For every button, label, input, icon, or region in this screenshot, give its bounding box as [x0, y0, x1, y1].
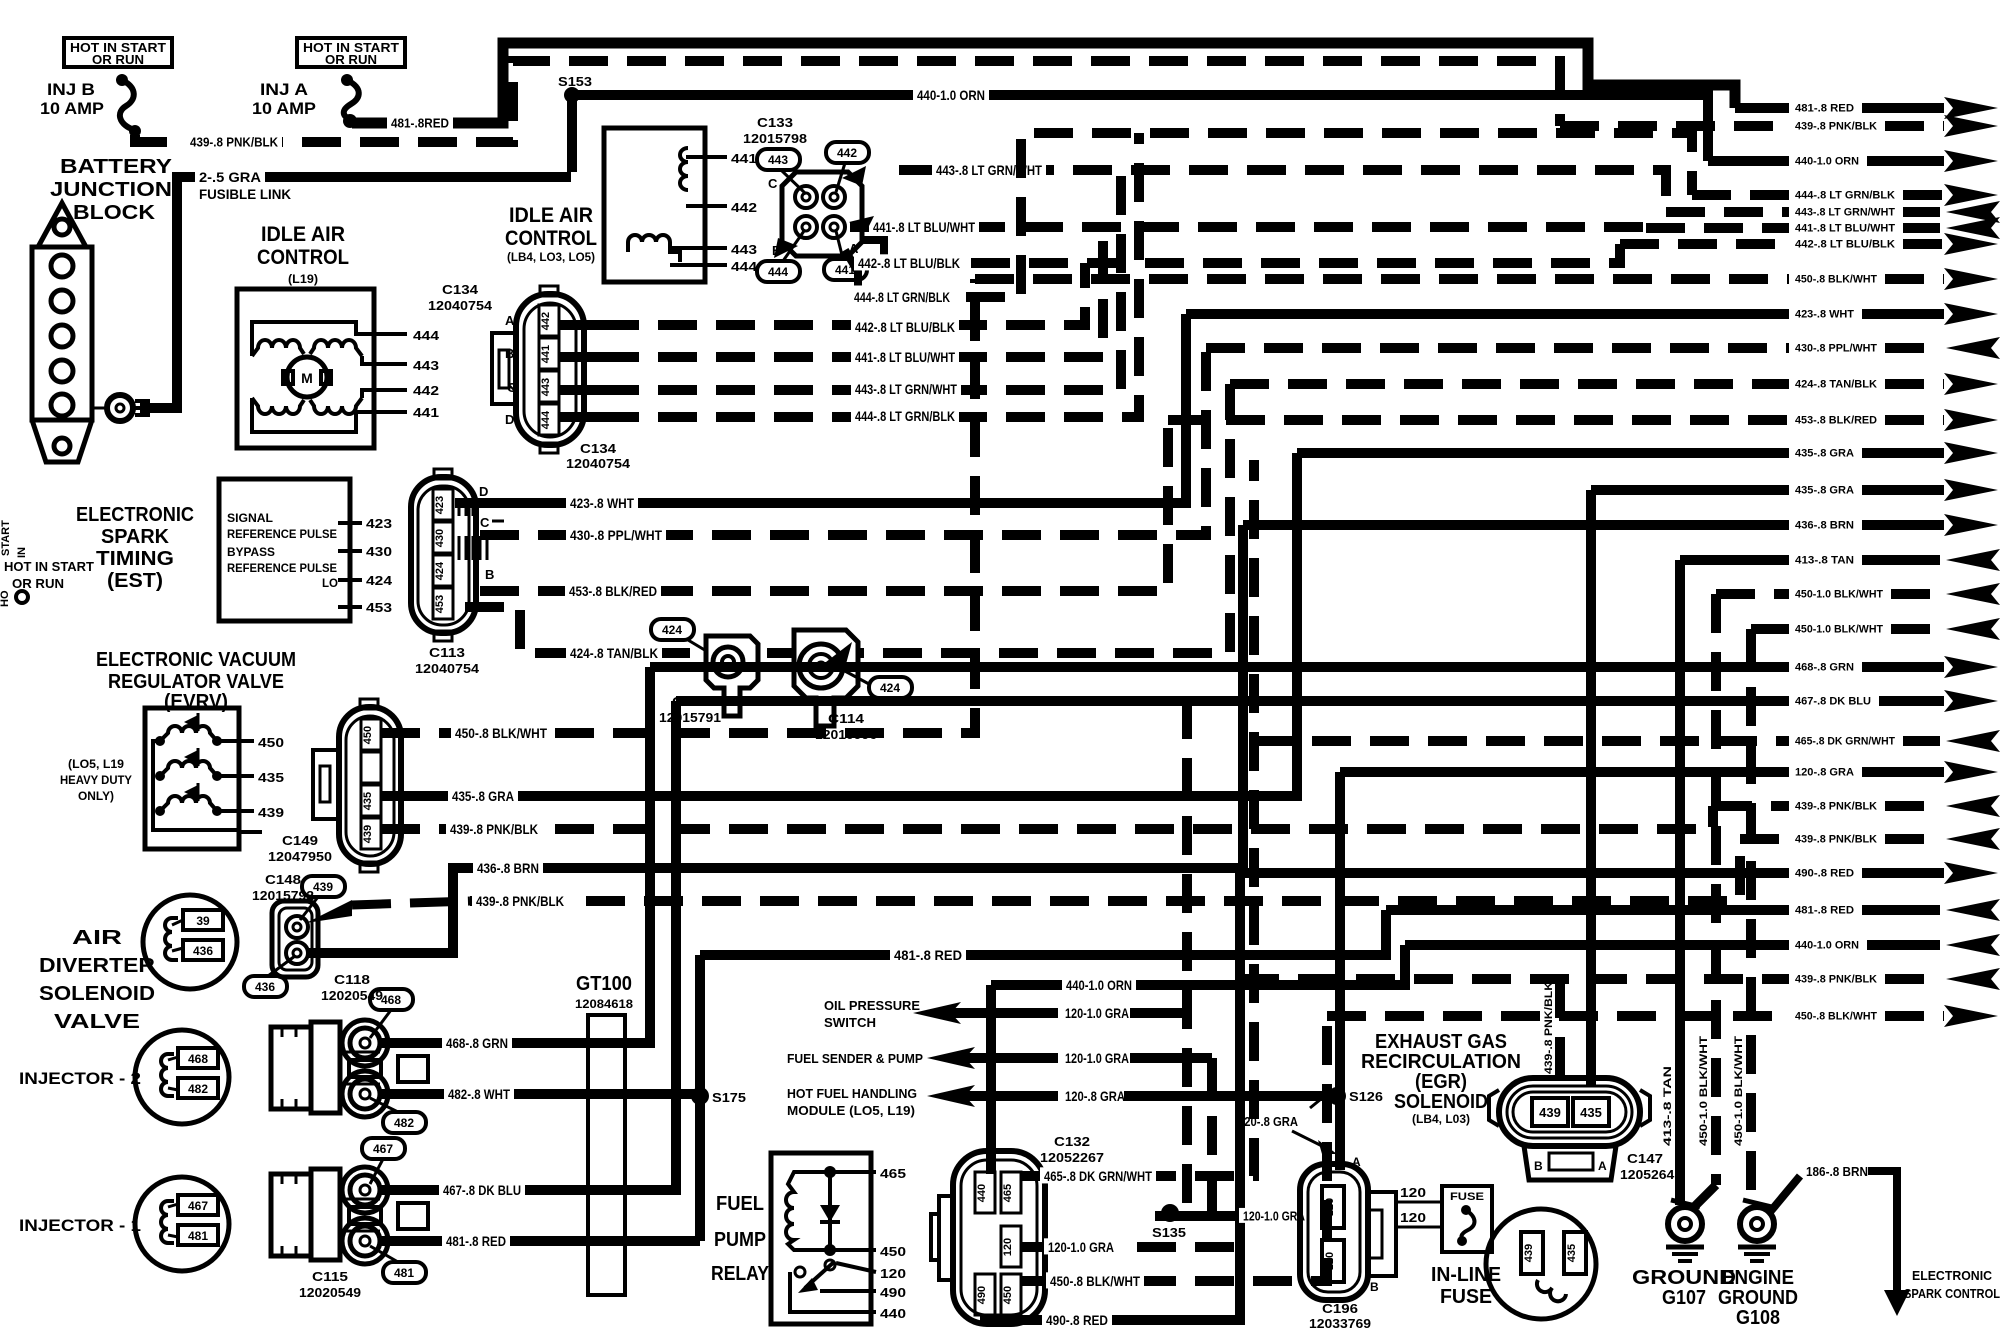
svg-text:LO: LO [322, 576, 338, 590]
svg-text:10 AMP: 10 AMP [252, 99, 316, 118]
svg-text:S175: S175 [712, 1090, 746, 1105]
svg-text:430: 430 [434, 529, 446, 547]
wire 490-.8 RED (right edge, y=873) [1240, 868, 1789, 878]
svg-text:FUEL: FUEL [716, 1193, 764, 1215]
svg-text:IDLE AIR: IDLE AIR [261, 223, 345, 246]
connector C113 shield hatch [458, 500, 461, 516]
EST box [219, 479, 350, 621]
IAC LB4 coil top [680, 148, 688, 190]
connector C133 body [782, 172, 862, 256]
svg-text:467: 467 [188, 1199, 208, 1213]
svg-text:HEAVY DUTY: HEAVY DUTY [60, 773, 132, 787]
wire 435-.8 GRA (right edge, y=490) [1591, 485, 1789, 495]
connector C113 body [411, 477, 476, 633]
svg-text:467-.8 DK BLU: 467-.8 DK BLU [1795, 696, 1871, 708]
wire 450-.8 BLK/WHT (right edge, y=1016) [1327, 1011, 1789, 1021]
svg-text:SPARK CONTROL: SPARK CONTROL [1904, 1286, 2000, 1301]
in-line fuse box [1442, 1186, 1492, 1252]
svg-text:442: 442 [731, 200, 757, 215]
connector C147 body [1499, 1078, 1640, 1146]
svg-text:439-.8 PNK/BLK: 439-.8 PNK/BLK [450, 821, 538, 837]
svg-text:12033769: 12033769 [1309, 1316, 1371, 1328]
wire 120-.8 GRA riser to C196 [1335, 772, 1345, 1170]
svg-text:INJECTOR - 1: INJECTOR - 1 [19, 1216, 141, 1235]
svg-text:441-.8 LT BLU/WHT: 441-.8 LT BLU/WHT [855, 349, 955, 365]
svg-text:443: 443 [413, 358, 439, 373]
splice S135 and 120-1.0 GRA to C196 [1155, 1211, 1300, 1221]
svg-text:REFERENCE PULSE: REFERENCE PULSE [227, 527, 337, 541]
svg-text:440-1.0 ORN: 440-1.0 ORN [917, 87, 985, 103]
svg-text:439-.8 PNK/BLK: 439-.8 PNK/BLK [1795, 834, 1877, 846]
svg-text:442: 442 [837, 146, 857, 160]
wire 465-.8 DK GRN/WHT from C132 [1021, 460, 1254, 1176]
EVRV box [145, 708, 239, 849]
svg-text:442: 442 [413, 383, 439, 398]
wire 430-.8 PPL/WHT [480, 348, 1206, 535]
svg-text:490: 490 [976, 1286, 988, 1304]
wire 482-.8 WHT [380, 1089, 697, 1099]
svg-text:EXHAUST GAS: EXHAUST GAS [1375, 1031, 1507, 1053]
svg-text:186-.8 BRN: 186-.8 BRN [1806, 1164, 1868, 1179]
svg-text:468-.8 GRN: 468-.8 GRN [446, 1035, 508, 1051]
svg-text:IN-LINE: IN-LINE [1431, 1264, 1501, 1286]
label 481-.8RED [387, 115, 453, 130]
wire 436-.8 BRN from C118 [307, 525, 1243, 953]
svg-text:465: 465 [880, 1166, 906, 1181]
svg-text:12040754: 12040754 [415, 661, 480, 676]
svg-text:482: 482 [188, 1082, 208, 1096]
svg-text:430-.8 PPL/WHT: 430-.8 PPL/WHT [1795, 343, 1877, 355]
svg-text:443: 443 [768, 153, 788, 167]
wire 439-.8 PNK/BLK from C149 [381, 806, 1713, 829]
wire 436-.8 BRN (right edge, y=525) [1243, 520, 1789, 530]
svg-text:IDLE AIR: IDLE AIR [509, 204, 593, 227]
battery junction block body [38, 203, 86, 247]
connector C114 #1 tag 424 [651, 619, 694, 640]
svg-text:443-.8 LT GRN/WHT: 443-.8 LT GRN/WHT [936, 162, 1042, 178]
label 439-.8 PNK/BLK [186, 134, 282, 149]
svg-text:C149: C149 [282, 833, 318, 848]
svg-text:GT100: GT100 [576, 973, 632, 995]
svg-text:120-1.0 GRA: 120-1.0 GRA [1065, 1005, 1129, 1021]
connector C148 wedge [306, 900, 352, 923]
connector C132 body [953, 1151, 1045, 1324]
svg-text:120-1.0 GRA: 120-1.0 GRA [1243, 1209, 1305, 1224]
svg-text:CONTROL: CONTROL [257, 246, 349, 269]
svg-text:481: 481 [188, 1229, 208, 1243]
wire 423-.8 WHT (right edge, y=314) [1186, 309, 1789, 319]
wire 439-.8 PNK/BLK (right edge, y=806) [1713, 801, 1789, 811]
svg-text:444-.8 LT GRN/BLK: 444-.8 LT GRN/BLK [855, 408, 955, 424]
wire 490-.8 RED from C132 [985, 873, 1240, 1320]
wire 481-.8 RED (right edge, y=910) [1386, 905, 1789, 915]
svg-text:120: 120 [1400, 1185, 1426, 1200]
wire 444-.8 LT GRN/BLK lower row [600, 133, 1139, 417]
svg-text:BYPASS: BYPASS [227, 545, 275, 559]
svg-text:SIGNAL: SIGNAL [227, 511, 273, 525]
connector C147 pins 439 435 [1532, 1098, 1568, 1126]
IAC LB4 pin lines 441 442 443 444 [686, 155, 727, 159]
air diverter pin boxes 39 436 [183, 910, 223, 930]
svg-text:AIR: AIR [72, 927, 123, 949]
connector C114 #2 tag 424 [869, 677, 912, 698]
svg-text:439: 439 [258, 805, 284, 820]
svg-text:D: D [505, 412, 514, 427]
svg-text:10 AMP: 10 AMP [40, 99, 104, 118]
svg-text:HOT FUEL HANDLING: HOT FUEL HANDLING [787, 1086, 917, 1101]
wire 440-1.0 ORN (right edge, y=161) [1708, 156, 1789, 166]
svg-text:443: 443 [540, 378, 552, 396]
injector-2 connector C119 body [271, 1027, 311, 1109]
IAC L19 motor M [287, 357, 327, 397]
svg-text:39: 39 [196, 914, 210, 928]
svg-text:465: 465 [1002, 1184, 1014, 1202]
wire 439-.8 PNK/BLK to EGR (riser) [1555, 979, 1565, 1085]
wire 186-.8 BRN [1770, 1176, 1800, 1212]
connector C114 #1 body [706, 636, 758, 716]
wire 441-.8 LT BLU/WHT (right edge, y=228) [1646, 223, 1789, 233]
svg-text:481-.8 RED: 481-.8 RED [894, 947, 962, 963]
svg-text:OR RUN: OR RUN [12, 576, 64, 591]
svg-text:430: 430 [366, 544, 392, 559]
svg-text:120: 120 [880, 1266, 906, 1281]
svg-text:A: A [1598, 1159, 1607, 1173]
svg-text:B: B [772, 243, 781, 258]
svg-text:B: B [485, 567, 494, 582]
fuse box label HOT IN START OR RUN (INJ A) [297, 38, 405, 67]
svg-text:C134: C134 [580, 441, 617, 456]
svg-text:C: C [480, 515, 490, 530]
svg-text:450-1.0 BLK/WHT: 450-1.0 BLK/WHT [1698, 1036, 1710, 1146]
connector C133 tag leaders [781, 170, 806, 194]
svg-text:468-.8 GRN: 468-.8 GRN [1795, 662, 1854, 674]
svg-text:PUMP: PUMP [714, 1229, 766, 1251]
svg-text:423-.8 WHT: 423-.8 WHT [570, 495, 634, 511]
connector C114 #2 body [794, 630, 858, 726]
svg-text:12020549: 12020549 [299, 1285, 361, 1300]
svg-text:436-.8 BRN: 436-.8 BRN [477, 860, 539, 876]
wire 440-1.0 ORN (right edge, y=945) [1405, 940, 1789, 950]
svg-text:435: 435 [1580, 1105, 1602, 1120]
wire 481-.8 RED injector-1 [380, 1236, 700, 1246]
label 440-1.0 ORN (top) [913, 86, 989, 102]
wire 450-.8 BLK/WHT from C149 [381, 279, 975, 733]
wire 423-.8 WHT [455, 314, 1186, 503]
wire 430-.8 PPL/WHT (right edge, y=348) [1206, 343, 1789, 353]
connector C133 wedge marks [842, 166, 866, 186]
svg-text:(LB4, LO3, LO5): (LB4, LO3, LO5) [507, 250, 595, 264]
connector C149 pins 450 - 435 439 [361, 719, 381, 750]
injector-1 tag 481 [383, 1262, 426, 1283]
wire 450-1.0 BLK/WHT riser #1 [1711, 594, 1721, 1185]
EGR solenoid circle connector [1486, 1209, 1596, 1319]
wire 442-.8 LT BLU/BLK lower row [600, 263, 1085, 325]
svg-text:481: 481 [394, 1266, 414, 1280]
wire 435-.8 GRA from C149 [381, 453, 1297, 796]
svg-text:440-1.0 ORN: 440-1.0 ORN [1066, 977, 1132, 993]
svg-text:468: 468 [381, 993, 401, 1007]
svg-text:467: 467 [373, 1142, 393, 1156]
wire 443-.8 LT GRN/WHT (right edge, y=212) [1666, 207, 1789, 217]
svg-text:C115: C115 [312, 1269, 348, 1284]
svg-text:453-.8 BLK/RED: 453-.8 BLK/RED [1795, 415, 1877, 427]
wire 439-.8 PNK/BLK (right edge, y=979) [1240, 974, 1789, 984]
svg-text:12084618: 12084618 [575, 997, 633, 1011]
connector C149 left tab [313, 750, 339, 819]
wire 444-.8 LT GRN/BLK (right edge, y=195) [1692, 190, 1789, 200]
wire 441-.8 LT BLU/WHT lower row [600, 227, 1103, 357]
svg-text:12052641: 12052641 [1620, 1167, 1682, 1182]
svg-text:C114: C114 [828, 711, 865, 726]
wire 424-.8 TAN/BLK [465, 384, 1230, 653]
svg-text:444-.8 LT GRN/BLK: 444-.8 LT GRN/BLK [854, 289, 950, 305]
svg-text:436: 436 [193, 944, 213, 958]
connector C118 tag 436 [244, 976, 287, 997]
svg-text:424: 424 [662, 623, 682, 637]
ground G107 symbol [1666, 1245, 1704, 1250]
svg-text:450-1.0 BLK/WHT: 450-1.0 BLK/WHT [1795, 624, 1883, 636]
EVRV pin lines 450 435 439 [217, 739, 254, 743]
svg-text:C133: C133 [757, 115, 793, 130]
svg-text:INJ A: INJ A [260, 80, 308, 99]
svg-text:FUEL SENDER & PUMP: FUEL SENDER & PUMP [787, 1051, 923, 1066]
connector C147 base [1524, 1146, 1616, 1180]
wire 440 ORN from S153 [567, 95, 577, 172]
svg-text:2-.5 GRA: 2-.5 GRA [199, 169, 261, 185]
svg-text:SWITCH: SWITCH [824, 1015, 876, 1030]
svg-text:424: 424 [880, 681, 900, 695]
svg-text:SOLENOID: SOLENOID [39, 983, 155, 1005]
wire 440-1.0 ORN riser from C132 [986, 985, 996, 1174]
svg-text:REGULATOR VALVE: REGULATOR VALVE [108, 671, 284, 693]
svg-text:120: 120 [1002, 1238, 1014, 1256]
splice S175 [691, 1087, 709, 1105]
svg-text:B: B [1534, 1159, 1543, 1173]
battery ring terminal [94, 407, 105, 410]
svg-text:443-.8 LT GRN/WHT: 443-.8 LT GRN/WHT [855, 381, 957, 397]
svg-text:450-1.0 BLK/WHT: 450-1.0 BLK/WHT [1733, 1036, 1745, 1146]
label 120-.8 GRA row3 [1061, 1087, 1129, 1103]
connector C134 pins 442 441 443 444 [539, 305, 559, 336]
connector C196 right tab [1368, 1192, 1396, 1276]
wire 453-.8 BLK/RED [480, 420, 1168, 591]
wire 468-.8 GRN (right edge, y=667) [650, 662, 1789, 672]
svg-text:B: B [1370, 1280, 1379, 1294]
svg-text:435-.8 GRA: 435-.8 GRA [1795, 485, 1854, 497]
connector C113 pins 423 430 424 453 [433, 489, 453, 520]
svg-text:120-1.0 GRA: 120-1.0 GRA [1065, 1050, 1129, 1066]
svg-text:120-1.0 GRA: 120-1.0 GRA [1048, 1239, 1114, 1255]
connector C149 body [339, 707, 401, 864]
wire 467-.8 DK BLU [380, 701, 676, 1190]
svg-text:443: 443 [731, 242, 757, 257]
svg-text:120-.8 GRA: 120-.8 GRA [1238, 1114, 1299, 1129]
label 120-1.0 GRA row1 [1061, 1004, 1133, 1020]
wire 450-1.0 BLK/WHT (right edge, y=594) [1716, 589, 1789, 599]
svg-text:440: 440 [976, 1184, 988, 1202]
svg-text:120: 120 [1324, 1198, 1336, 1216]
IAC L19 pin lines and labels 444 443 442 441 [252, 322, 407, 356]
wire 442-.8 LT BLU/BLK upper row [855, 244, 1620, 263]
svg-text:FUSIBLE LINK: FUSIBLE LINK [199, 186, 291, 202]
svg-text:440-1.0 ORN: 440-1.0 ORN [1795, 156, 1859, 168]
wire 450-1.0 BLK/WHT riser #2 [1746, 629, 1756, 1205]
svg-text:12040754: 12040754 [428, 298, 493, 313]
EVRV 4th stub [239, 830, 262, 834]
svg-text:DIVERTER: DIVERTER [39, 955, 156, 977]
svg-text:GROUND: GROUND [1632, 1267, 1736, 1289]
svg-text:VALVE: VALVE [54, 1011, 140, 1033]
fuse box label HOT IN START OR RUN (INJ B) [64, 38, 172, 67]
svg-text:467-.8 DK BLU: 467-.8 DK BLU [443, 1182, 521, 1198]
relay diode [828, 1172, 832, 1250]
svg-text:D: D [479, 484, 488, 499]
wire 439-.8 PNK/BLK (right edge, y=839) [1740, 834, 1789, 844]
svg-text:S135: S135 [1152, 1225, 1186, 1240]
svg-text:444: 444 [540, 410, 552, 429]
svg-text:413-.8 TAN: 413-.8 TAN [1662, 1066, 1674, 1146]
wire 120-.8 GRA (right edge, y=772) [1340, 767, 1789, 777]
svg-text:450: 450 [880, 1244, 906, 1259]
svg-text:436-.8 BRN: 436-.8 BRN [1795, 520, 1854, 532]
wire 450-1.0 BLK/WHT (right edge, y=629) [1751, 624, 1789, 634]
fuse INJ A symbol [341, 74, 353, 86]
svg-text:413-.8 TAN: 413-.8 TAN [1795, 555, 1854, 567]
svg-text:ELECTRONIC VACUUM: ELECTRONIC VACUUM [96, 649, 296, 671]
ground G107 ring terminal [1668, 1207, 1702, 1241]
svg-text:423: 423 [366, 516, 392, 531]
svg-text:C: C [768, 176, 778, 191]
svg-text:440: 440 [880, 1306, 906, 1321]
injector-2 tag 482 [383, 1112, 426, 1133]
svg-text:JUNCTION: JUNCTION [50, 179, 172, 201]
svg-text:442-.8 LT BLU/BLK: 442-.8 LT BLU/BLK [855, 319, 955, 335]
svg-text:444: 444 [731, 259, 758, 274]
svg-text:C132: C132 [1054, 1134, 1090, 1149]
svg-text:439-.8 PNK/BLK: 439-.8 PNK/BLK [190, 135, 279, 150]
svg-text:C147: C147 [1627, 1151, 1663, 1166]
svg-text:465-.8 DK GRN/WHT: 465-.8 DK GRN/WHT [1044, 1168, 1152, 1184]
svg-text:424-.8 TAN/BLK: 424-.8 TAN/BLK [1795, 379, 1877, 391]
EVRV internal bus [153, 741, 239, 830]
svg-text:HOT IN START: HOT IN START [4, 559, 94, 574]
svg-text:C196: C196 [1322, 1301, 1358, 1316]
connector C132 left tabs [939, 1196, 953, 1280]
wire 444-.8 LT GRN/BLK upper row [850, 133, 1692, 297]
svg-text:ENGINE: ENGINE [1722, 1267, 1794, 1289]
wire 442-.8 LT BLU/BLK (right edge, y=244) [1620, 239, 1789, 249]
wire 439-.8 PNK/BLK from C148 [352, 901, 470, 905]
idle air control (L19) box [237, 289, 374, 448]
svg-text:GROUND: GROUND [1718, 1287, 1798, 1309]
splice S153 [564, 87, 580, 103]
svg-text:435-.8 GRA: 435-.8 GRA [452, 788, 514, 804]
svg-text:START: START [0, 520, 12, 556]
connector C148 tag 439 [302, 876, 345, 897]
svg-text:482-.8 WHT: 482-.8 WHT [448, 1086, 510, 1102]
svg-text:439: 439 [313, 880, 333, 894]
wire 453-.8 BLK/RED (right edge, y=420) [1168, 415, 1789, 425]
svg-text:120-.8 GRA: 120-.8 GRA [1065, 1088, 1125, 1104]
svg-text:453-.8 BLK/RED: 453-.8 BLK/RED [569, 583, 657, 599]
wire 120-1.0 GRA from C132 [1021, 1242, 1240, 1252]
svg-text:442: 442 [540, 312, 552, 330]
connector C148 body [272, 901, 318, 977]
wire 439 PNK/BLK from INJ B fuse (dashed) [135, 61, 1560, 142]
svg-text:12040754: 12040754 [566, 456, 631, 471]
svg-text:TIMING: TIMING [96, 548, 174, 570]
svg-text:12052267: 12052267 [1040, 1150, 1104, 1165]
wire 481-.8 RED trunk [695, 955, 705, 1241]
svg-text:465-.8 DK GRN/WHT: 465-.8 DK GRN/WHT [1795, 736, 1895, 748]
svg-text:423: 423 [434, 496, 446, 514]
svg-text:424: 424 [366, 573, 393, 588]
svg-text:120-.8 GRA: 120-.8 GRA [1795, 767, 1854, 779]
svg-text:IN: IN [16, 547, 28, 558]
injector-1 circle symbol [135, 1177, 229, 1271]
svg-text:BLOCK: BLOCK [73, 202, 156, 224]
svg-text:(EST): (EST) [107, 570, 163, 592]
connector C133 pins [795, 186, 817, 208]
svg-text:MODULE (LO5, L19): MODULE (LO5, L19) [787, 1103, 915, 1118]
svg-text:RELAY: RELAY [711, 1263, 770, 1285]
relay coil [786, 1172, 830, 1250]
wire 439-.8 PNK/BLK (right edge, y=126) [1560, 121, 1789, 131]
svg-text:441-.8 LT BLU/WHT: 441-.8 LT BLU/WHT [1795, 223, 1895, 235]
svg-text:468: 468 [188, 1052, 208, 1066]
svg-text:439-.8 PNK/BLK: 439-.8 PNK/BLK [1543, 982, 1555, 1074]
connector C132 pins 440 465 120 490 450 [975, 1172, 995, 1213]
svg-text:ELECTRONIC: ELECTRONIC [76, 504, 194, 526]
svg-text:436: 436 [255, 980, 275, 994]
svg-text:450-.8 BLK/WHT: 450-.8 BLK/WHT [1050, 1273, 1140, 1289]
svg-text:443-.8 LT GRN/WHT: 443-.8 LT GRN/WHT [1795, 207, 1895, 219]
relay pins [812, 1170, 876, 1174]
svg-text:OIL PRESSURE: OIL PRESSURE [824, 998, 920, 1013]
svg-text:424-.8 TAN/BLK: 424-.8 TAN/BLK [570, 645, 658, 661]
wire 481 RED from INJ A fuse [352, 43, 1735, 123]
connector C134 pin stubs [559, 320, 600, 330]
ground G108 ring terminal [1740, 1207, 1774, 1241]
svg-text:450: 450 [362, 726, 374, 744]
svg-text:(EGR): (EGR) [1415, 1071, 1467, 1093]
svg-text:450-.8 BLK/WHT: 450-.8 BLK/WHT [1795, 274, 1877, 286]
label 2-.5 GRA [195, 168, 265, 184]
svg-text:435: 435 [362, 792, 374, 810]
svg-text:441-.8 LT BLU/WHT: 441-.8 LT BLU/WHT [873, 219, 975, 235]
svg-text:C118: C118 [334, 972, 370, 987]
C133 elbow dashes [862, 240, 884, 263]
svg-text:440-1.0 ORN: 440-1.0 ORN [1795, 940, 1859, 952]
svg-text:450-1.0 BLK/WHT: 450-1.0 BLK/WHT [1795, 589, 1883, 601]
svg-text:S126: S126 [1349, 1089, 1383, 1104]
svg-text:439: 439 [1539, 1105, 1561, 1120]
riser dashed x1187 [1182, 700, 1192, 1213]
svg-text:435: 435 [1566, 1244, 1578, 1262]
svg-text:439-.8 PNK/BLK: 439-.8 PNK/BLK [476, 893, 564, 909]
svg-text:439-.8 PNK/BLK: 439-.8 PNK/BLK [1795, 121, 1877, 133]
svg-text:444: 444 [413, 328, 440, 343]
svg-text:444: 444 [768, 265, 788, 279]
wire 450-.8 BLK/WHT (right edge, y=279) [975, 274, 1789, 284]
svg-text:INJECTOR - 2: INJECTOR - 2 [19, 1069, 141, 1088]
svg-text:CONTROL: CONTROL [505, 227, 597, 250]
IAC LB4 coil bottom [628, 235, 680, 262]
svg-text:481-.8 RED: 481-.8 RED [1795, 905, 1854, 917]
air diverter solenoid circle [143, 895, 237, 989]
ground G108 symbol [1738, 1245, 1776, 1250]
svg-text:HO: HO [0, 590, 11, 607]
